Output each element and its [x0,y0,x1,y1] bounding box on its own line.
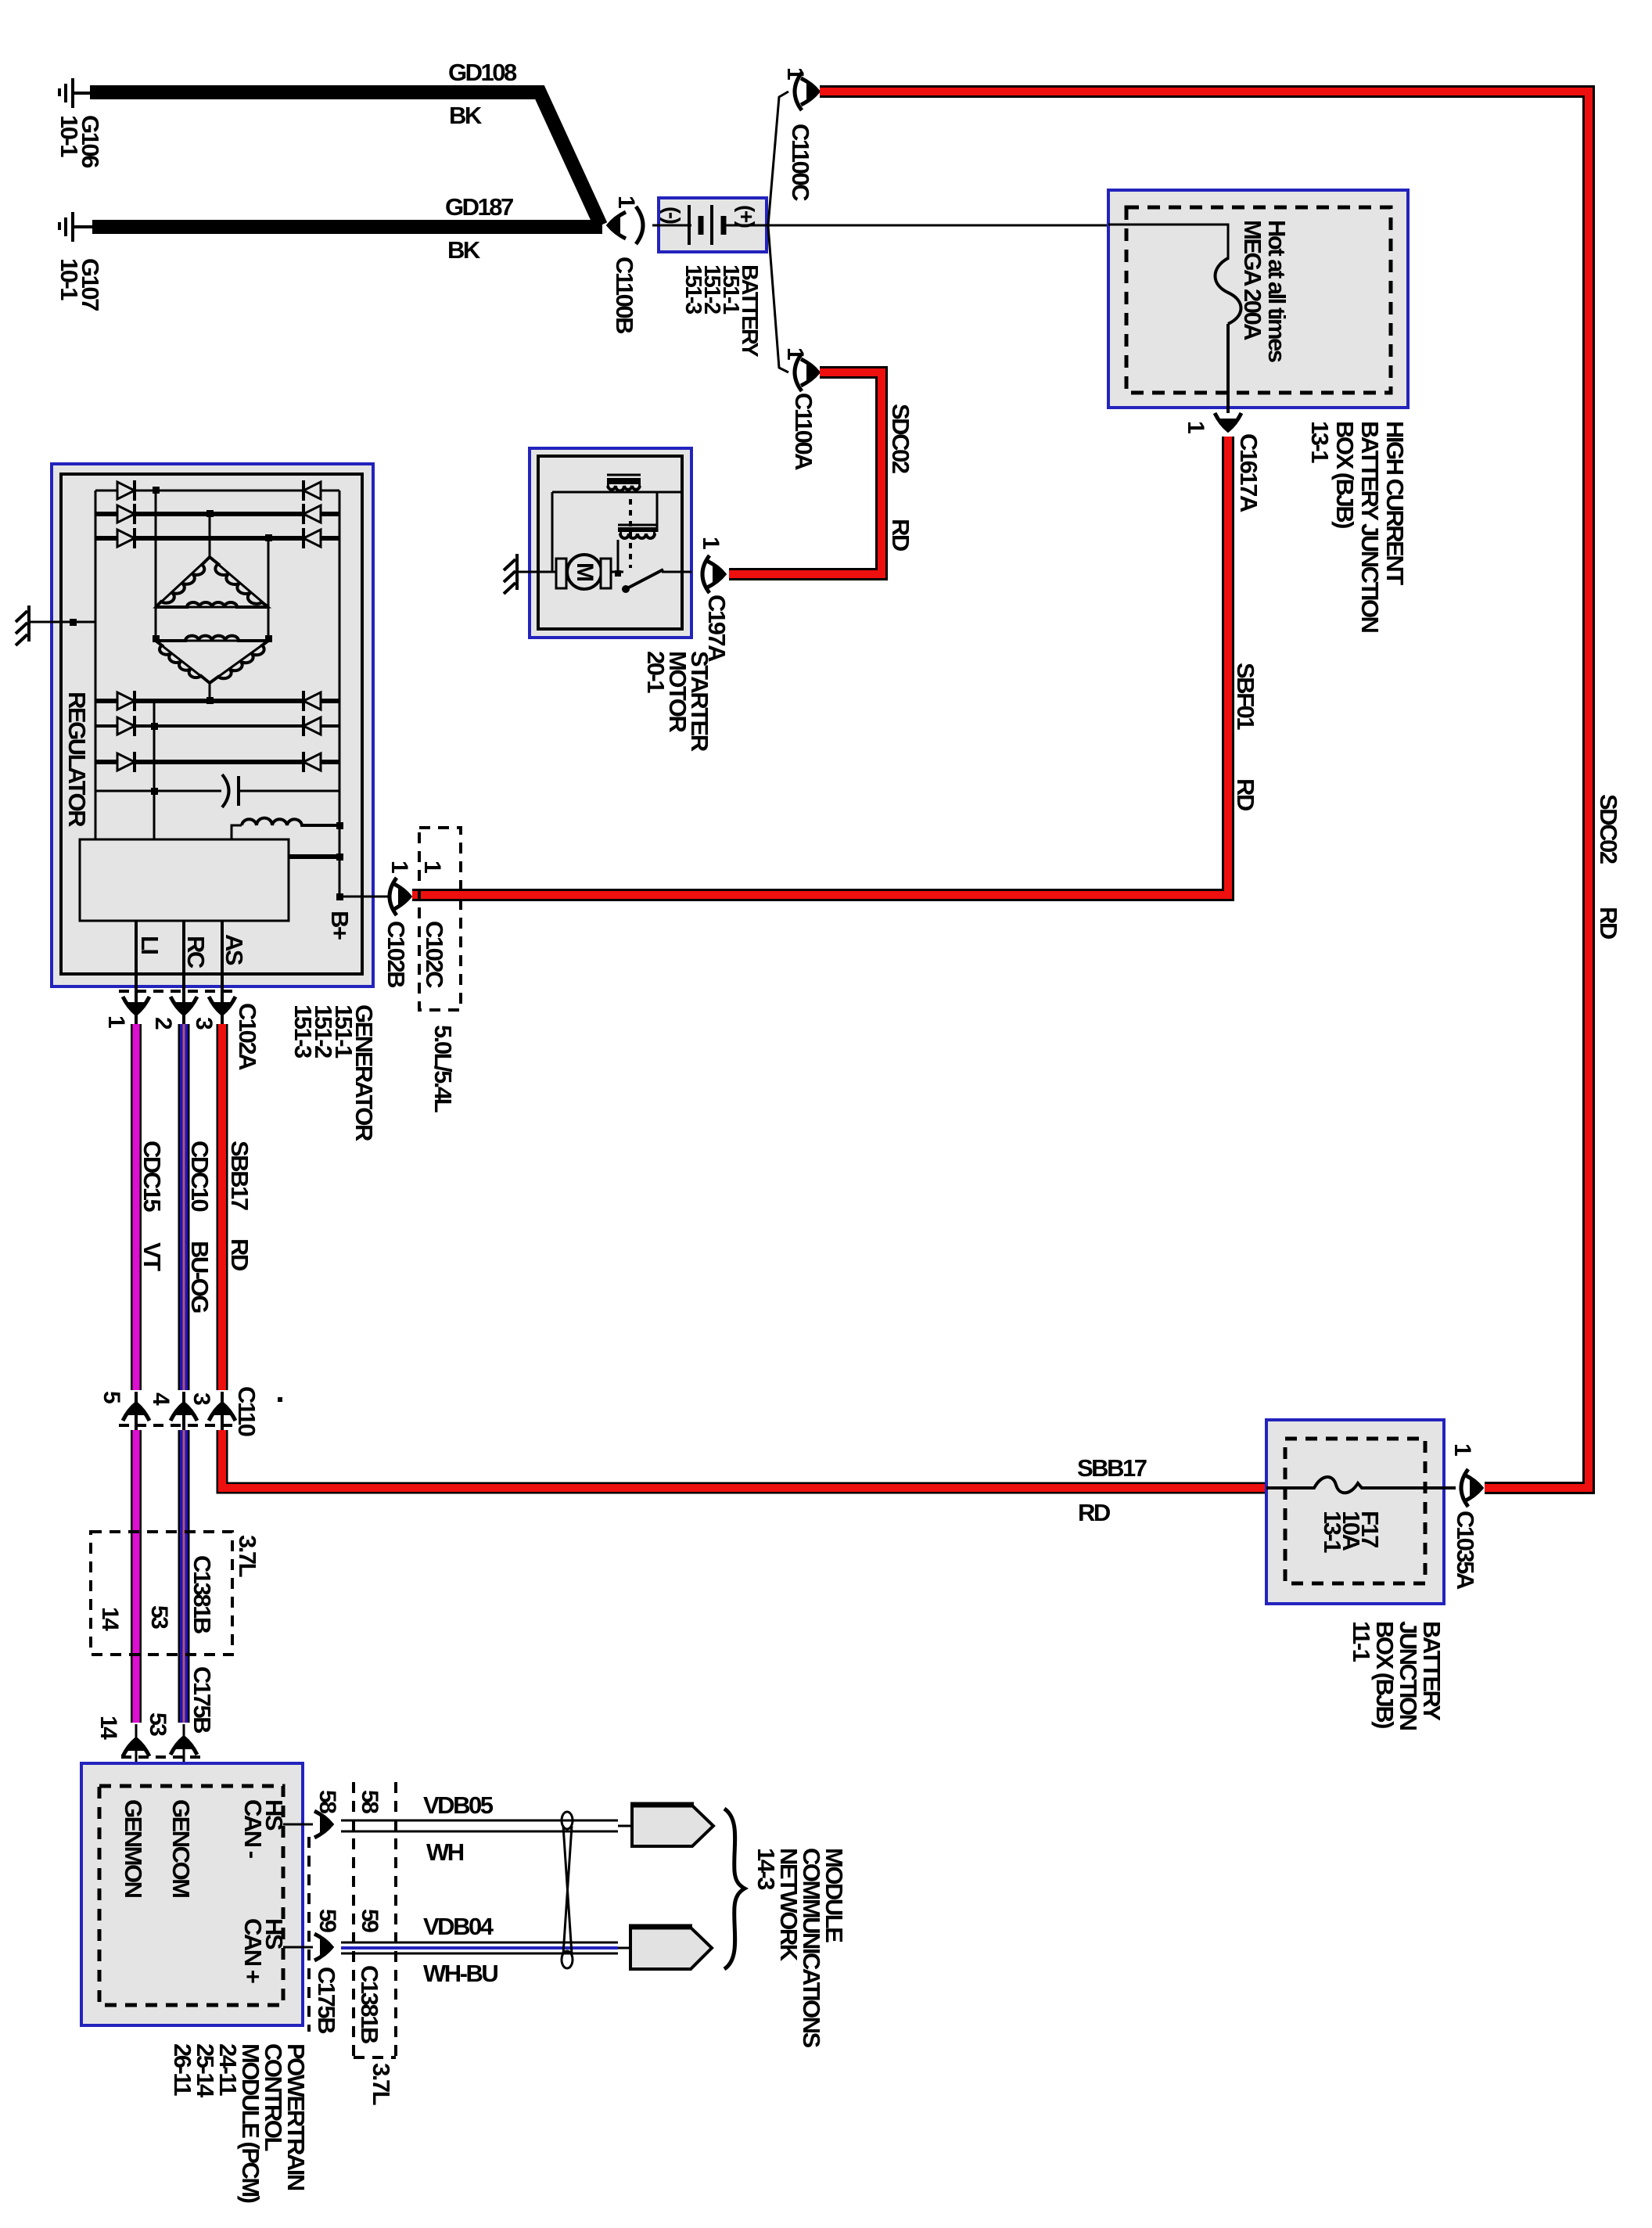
label Hot at all times MEGA 200A [1239,220,1291,362]
svg-text:3.7L: 3.7L [234,1535,261,1577]
junction (ground bus) [70,619,77,626]
wire branch to C1100A [768,226,788,372]
pin 59 (C1381B) [357,1909,382,1932]
fuse F17 10A [1266,1477,1456,1493]
starter switch blade [622,570,663,593]
generator left bus [95,491,97,839]
label G107 10-1 [56,258,104,311]
svg-text:2: 2 [150,1017,176,1030]
svg-text:GENCOM: GENCOM [167,1799,195,1897]
junction dot delta2 TL [153,635,160,642]
starter solenoid pull-in coil [607,486,641,491]
wire SDC02 RD (battery to BJB 11-1) [820,92,1589,1488]
svg-text:1: 1 [782,347,808,360]
pin 14 (C1381B) [97,1607,123,1631]
label C1100C [787,124,814,201]
wire SBF01 RD [412,437,1228,895]
label VT [138,1242,166,1271]
off-page connector (VDB05) [630,1805,713,1846]
junction dot r2-B [206,510,214,517]
pin 14 (C175B) [95,1716,121,1740]
wire VDB05 WH twisted pair [341,1820,632,1831]
label SDC02 (starter feed) [887,404,914,473]
connector C175B arrow pin58 [314,1811,334,1838]
starter solenoid pull-in coil core bar [607,478,641,484]
label LI [136,936,163,954]
svg-text:BK: BK [449,102,483,129]
pin 58 (C1381B) [357,1790,382,1813]
svg-text:REGULATOR: REGULATOR [63,692,91,827]
svg-text:1: 1 [613,196,639,208]
svg-text:LI: LI [136,936,163,954]
pin 5 (C110) [99,1391,124,1403]
svg-text:C102B: C102B [382,921,410,987]
svg-text:C1100C: C1100C [787,124,814,201]
row diode pair 6 [95,760,339,764]
generator right bus [339,491,341,897]
row diode pair 2 [95,512,339,516]
junction dot r1-A [153,487,160,494]
label C1100A [790,393,817,470]
connector C1100C arc [795,73,802,110]
pin 1 (C197A) [698,537,724,549]
svg-text:SBB17: SBB17 [1077,1454,1147,1482]
label GENMON [120,1799,147,1898]
svg-text:VT: VT [138,1242,166,1271]
wire GD187 BK [92,220,602,234]
diode D5L [117,716,135,736]
connector C197A arc [702,555,709,593]
svg-text:RC: RC [182,936,210,968]
label C1381B [189,1555,216,1633]
diode D4L [117,691,135,711]
label GD108 [448,59,517,86]
svg-text:C1100A: C1100A [790,393,817,470]
junction dot B+ out [336,893,343,900]
connector C102 dashed box [419,828,461,1010]
connector C102 arc [390,878,397,915]
label MODULE COMMUNICATIONS NETWORK 14-3 [752,1848,848,2048]
svg-text:WH-BU: WH-BU [423,1960,497,1987]
label GD187 [445,193,513,221]
label C175B [189,1666,216,1733]
ground G106 [59,78,90,108]
svg-text:3: 3 [189,1392,214,1405]
starter switch contact [612,571,691,573]
connector C1100A arc [795,354,802,391]
label F17 10A 13-1 [1319,1511,1384,1553]
svg-text:BU-OG: BU-OG [186,1241,214,1313]
wire CDC15 VT (lower) [131,1430,142,1723]
pin 3 (C102A) [191,1017,217,1030]
label HS CAN - [239,1799,288,1859]
generator ground [16,606,29,645]
connector C197A arrow [707,561,727,588]
svg-text:59: 59 [357,1909,382,1932]
label 3.7L (CAN) [368,2063,395,2105]
connector C175B dashed line [121,1755,202,1759]
battery junction box (BJB) 11-1 [1266,1420,1444,1604]
connector C175B arrow pin14 [123,1737,149,1756]
connector C175B dashed line (CAN) [307,1837,311,2032]
wire CDC15 VT (upper) [131,1024,142,1390]
twisted pair symbol [562,1812,573,1968]
wire into BJB 13-1 [1108,225,1228,260]
starter motor inner frame [538,456,682,629]
svg-text:SBB17: SBB17 [226,1141,253,1210]
pin lead LI [135,921,138,1024]
generator ground lead [28,621,95,623]
svg-text:RD: RD [226,1238,253,1271]
label BK (GD108) [449,102,483,129]
label C1381B (CAN) [356,1965,383,2043]
label STARTER MOTOR 20-1 [642,651,713,752]
label GENERATOR 151-1 151-2 151-3 [289,1004,378,1141]
label AS [221,934,248,965]
svg-text:CDC15: CDC15 [138,1141,166,1212]
capacitor wire left [95,790,221,792]
junction (starter coil-motor) [615,570,621,577]
junction dot delta2 TR [265,635,272,642]
starter motor M [556,555,611,589]
battery minus sign [660,207,684,224]
battery plus sign [734,205,759,228]
label REGULATOR [63,692,91,827]
wire SBB17 RD (lower) [222,1430,1266,1488]
label SBB17 (wire) [226,1141,253,1210]
wire battery to BJB [767,225,1108,227]
label 3.7L (C1381B) [234,1535,261,1577]
svg-text:1: 1 [698,537,724,549]
svg-text:VDB05: VDB05 [423,1791,494,1819]
svg-text:C102A: C102A [234,1003,261,1070]
svg-text:CDC10: CDC10 [186,1141,214,1211]
connector C102A arrow pin3 [209,997,235,1016]
starter solenoid coil lead [617,540,619,573]
connector C110 arrow pin3 [209,1401,235,1421]
capacitor wire right [239,790,339,792]
label C102C [421,921,448,988]
ground G107 [59,212,92,242]
pin 2 (C102A) [150,1017,176,1030]
label RC [182,936,210,968]
row diode pair 1 [95,490,339,492]
pin lead AS [221,921,224,1024]
pin 58 (PCM) [314,1790,340,1813]
connector C1100A arrow [801,359,821,386]
C175B leads [136,1724,184,1786]
diode D4R [303,691,321,711]
svg-text:C1381B: C1381B [189,1555,216,1633]
wire HS CAN- lead [283,1824,313,1826]
svg-text:GD108: GD108 [448,59,517,86]
starter ground [504,554,517,594]
diode D6R [303,752,321,772]
connector C110 arrow pin5 [123,1401,149,1421]
svg-text:1: 1 [1183,421,1208,433]
svg-text:(+): (+) [734,205,759,228]
junction dot r4-B [206,697,214,704]
label BATTERY 151-1 151-2 151-3 [681,264,762,357]
diode D5R [303,716,321,736]
svg-text:1: 1 [1449,1443,1475,1456]
diode D1R [303,480,321,501]
capacitor [222,774,239,807]
stator vertical B [209,514,211,701]
svg-text:SDC02: SDC02 [887,404,914,473]
starter solenoid pull-in coil core [607,474,641,476]
label SBB17 (run) [1077,1454,1147,1482]
label HS CAN + [239,1918,288,1983]
svg-text:VDB04: VDB04 [423,1913,494,1940]
svg-text:RD: RD [1078,1499,1111,1526]
svg-text:3.7L: 3.7L [368,2063,395,2105]
connector C110 arrow pin4 [171,1401,197,1421]
pin 3 (C110) [189,1392,214,1405]
svg-text:14: 14 [97,1607,123,1631]
svg-text:C175B: C175B [313,1967,340,2033]
label CDC15 [138,1141,166,1212]
svg-text:SBF01: SBF01 [1232,663,1259,730]
svg-text:C1035A: C1035A [1452,1511,1479,1590]
network brace [724,1809,745,1969]
wire SBB17 RD (upper) [217,1024,228,1390]
svg-text:1: 1 [386,861,412,873]
wire branch to C1100C [768,92,788,225]
connector C102 arrow [393,883,412,910]
connector C1035A arc [1461,1469,1468,1507]
junction dot capacitor feed [151,788,158,795]
starter solenoid hold-in coil [619,534,655,538]
label BK (GD187) [447,236,481,264]
connector C110 dashed line [119,1424,236,1427]
row diode pair 4 [95,699,339,703]
svg-text:GD187: GD187 [445,193,513,221]
pin 4 (C110) [148,1392,174,1406]
C110 leads [136,1392,222,1430]
off-page connector (VDB04) [629,1927,712,1969]
svg-text:SDC02: SDC02 [1595,794,1622,864]
svg-text:C110: C110 [233,1386,260,1436]
label C102B [382,921,410,987]
connector C175B arrow pin59 [314,1934,334,1960]
connector C1100B arrow [606,212,626,239]
label POWERTRAIN CONTROL MODULE (PCM) 24-11 25-14 26-11 [169,2043,310,2203]
junction dot inductor-bus [336,822,343,829]
diode D6L [117,752,135,772]
stator vertical C [268,538,270,638]
svg-text:M: M [572,562,598,580]
junction dot (C110 right) [278,1397,282,1402]
starter motor box [530,448,691,638]
label C1100B [611,257,638,333]
svg-text:(-): (-) [660,207,684,224]
label C1035A [1452,1511,1479,1590]
BJB 11-1 dashed border [1285,1439,1425,1583]
high current battery junction box (BJB) 13-1 [1108,190,1408,408]
svg-text:5.0L/5.4L: 5.0L/5.4L [429,1025,457,1112]
PCM inner dashed border [99,1786,283,2005]
label G106 10-1 [56,115,104,168]
label RD (SBF01) [1232,778,1259,811]
connector C1100C arrow [801,78,821,105]
svg-text:BK: BK [447,236,481,264]
label HIGH CURRENT BATTERY JUNCTION BOX (BJB) 13-1 [1306,421,1409,633]
generator box [52,464,373,986]
svg-text:WH: WH [426,1838,464,1866]
svg-text:C175B: C175B [189,1666,216,1733]
svg-text:53: 53 [146,1605,172,1629]
diode D1L [117,480,135,501]
BJB 13-1 dashed border [1126,207,1391,393]
pin 1 (C1100A) [782,347,808,360]
svg-text:58: 58 [314,1790,340,1813]
diode D2R [303,504,321,524]
label SBF01 [1232,663,1259,730]
pin 1 (C102C side) [419,861,445,873]
svg-text:1: 1 [782,67,808,80]
battery BATTERY [659,198,767,252]
svg-text:14: 14 [95,1716,121,1740]
regulator B+ link [289,854,339,859]
svg-text:RD: RD [887,519,914,552]
svg-text:GENMON: GENMON [120,1799,147,1898]
diode D3R [303,528,321,548]
label C1617A [1235,433,1262,512]
regulator block [80,839,289,921]
pin 1 (C1100C) [782,67,808,80]
generator inner frame [61,474,362,974]
stator delta winding 1 [156,557,268,607]
pin 59 (PCM) [314,1909,340,1932]
pin 53 (C1381B) [146,1605,172,1629]
label GENCOM [167,1799,195,1897]
wire SDC02 RD (to starter motor) [729,372,882,574]
svg-text:C1100B: C1100B [611,257,638,333]
label RD (SDC02 right) [1595,907,1622,940]
connector C1381B dashed box [91,1532,232,1655]
label BATTERY JUNCTION BOX (BJB) 11-1 [1348,1621,1445,1730]
svg-text:C102C: C102C [421,921,448,988]
row diode pair 3 [95,536,339,541]
label RD (starter feed) [887,519,914,552]
label VDB04 [423,1913,494,1940]
starter solenoid hold-in coil core bar [618,527,657,532]
label RD (run) [1078,1499,1111,1526]
fuse MEGA 200A [1216,258,1241,413]
wire B+ out [339,896,388,898]
pin 1 (C1617A) [1183,421,1208,433]
starter solenoid hold-in coil core [618,524,657,526]
label CDC10 [186,1141,214,1211]
connector C1617A arrow [1215,413,1241,433]
stator delta winding 2 [156,636,268,683]
starter solenoid rail link [656,493,659,532]
svg-text:58: 58 [357,1790,382,1813]
connector C1035A arrow [1464,1475,1484,1501]
field winding inductor [232,818,339,839]
label SDC02 (right) [1595,794,1622,864]
wire VDB04 WH-BU twisted pair [341,1942,630,1953]
junction dot r5 feed [151,723,158,730]
pin 1 (C102A) [103,1015,129,1028]
connector C175B arrow pin53 [171,1735,197,1755]
connector C102A arrow pin1 [123,997,149,1016]
battery terminal leads [652,225,767,227]
label C175B (CAN) [313,1967,340,2033]
wire HS CAN+ lead [283,1946,313,1949]
svg-text:53: 53 [145,1712,171,1736]
starter ground lead [516,571,558,573]
svg-text:RD: RD [1595,907,1622,940]
label C197A [703,595,731,662]
label VDB05 [423,1791,494,1819]
battery plates short [701,216,724,235]
wire CDC10 BU-OG (lower) [178,1430,190,1723]
stator vertical A [155,491,157,638]
svg-text:C1381B: C1381B [356,1965,383,2043]
label WH [426,1838,464,1866]
connector C102A dashed line [119,990,236,993]
label C102A [234,1003,261,1070]
label C110 [233,1386,260,1436]
wire GD108 BK [90,92,601,225]
label B+ [326,911,354,940]
diode D3L [117,528,135,548]
svg-text:1: 1 [419,861,445,873]
junction dot r3-C [265,534,272,541]
svg-text:B+: B+ [326,911,354,940]
label 5.0L/5.4L [429,1025,457,1112]
pin 1 (C1100B) [613,196,639,208]
diode D2L [117,504,135,524]
label RD (SBB17 wire) [226,1238,253,1271]
svg-text:3: 3 [191,1017,217,1030]
label WH-BU [423,1960,497,1987]
svg-text:C1617A: C1617A [1235,433,1262,512]
svg-text:RD: RD [1232,778,1259,811]
pin 1 (C1035A) [1449,1443,1475,1456]
svg-text:59: 59 [314,1909,340,1932]
svg-text:1: 1 [103,1015,129,1028]
connector C102A arrow pin2 [171,997,197,1016]
pin 53 (C175B) [145,1712,171,1736]
starter solenoid plunger link [629,499,632,568]
connector C1100B arc [636,207,643,244]
regulator vertical feed [153,701,156,839]
svg-text:AS: AS [221,934,248,965]
junction dot B+ link [336,853,343,861]
row diode pair 5 [95,724,339,728]
powertrain control module (PCM) [81,1763,303,2025]
battery plates [689,205,712,245]
pin 1 (C102B side) [386,861,412,873]
label BU-OG [186,1241,214,1313]
wire CDC10 BU-OG (upper) [178,1024,190,1390]
pin lead RC [182,921,185,1024]
svg-text:5: 5 [99,1391,124,1403]
starter top rail [552,492,682,572]
connector C1381B dashed lines (CAN) [354,1782,396,2057]
